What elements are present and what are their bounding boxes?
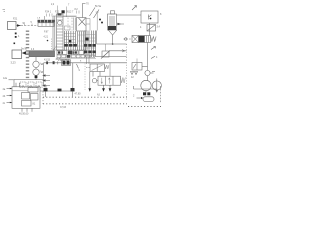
pilot node circle xyxy=(125,38,127,40)
wire funnel down xyxy=(112,35,114,44)
arrow label 2 xyxy=(137,97,143,99)
manifold bottom edge xyxy=(53,49,86,51)
wire motor box down xyxy=(149,23,151,36)
wire x43.5 down xyxy=(43,63,45,80)
wire cluster to funnel junction xyxy=(97,43,127,45)
enclosure stub left 12a xyxy=(9,79,15,81)
dashed vertical right xyxy=(160,86,162,103)
svg-text:A3: A3 xyxy=(97,94,101,97)
svg-text:9: 9 xyxy=(79,69,81,72)
junction dot on y44 xyxy=(112,43,114,45)
tick above band xyxy=(44,16,46,20)
tick mark xyxy=(14,43,16,45)
arrows into enclosure right c xyxy=(43,85,50,87)
node dot b xyxy=(101,22,103,24)
svg-text:43,53: 43,53 xyxy=(44,59,51,62)
svg-text:2: 2 xyxy=(133,95,135,98)
svg-text:F24 1: F24 1 xyxy=(45,11,52,14)
svg-text:70: 70 xyxy=(86,3,89,6)
wire G to main drop xyxy=(142,66,148,68)
valve block upper right with X xyxy=(77,18,87,32)
enclosure inner dashed cell 3 xyxy=(36,82,42,88)
small relief valve under box xyxy=(147,25,156,32)
manifold mid small box xyxy=(65,26,71,30)
manifold right verticals xyxy=(78,32,86,51)
ecu top stubs xyxy=(16,83,20,87)
load box B2 xyxy=(12,50,22,59)
pilot valve F1 body xyxy=(90,64,105,72)
wire y56 to right xyxy=(96,56,127,58)
arrows into enclosure right a xyxy=(43,75,50,77)
F1 pilot dashes xyxy=(86,67,90,69)
bus blob A2 xyxy=(44,88,48,91)
ecu left stub a xyxy=(7,88,13,90)
dotted stub vertical left xyxy=(42,92,44,105)
pilot dashes left of valve D xyxy=(124,38,133,40)
svg-text:7: 7 xyxy=(68,5,70,7)
svg-text:42: 42 xyxy=(131,76,134,79)
dotted bus line 2 xyxy=(43,103,127,105)
manifold band base line xyxy=(56,57,96,59)
svg-text:4c: 4c xyxy=(3,102,6,105)
manifold mid verticals xyxy=(64,31,75,50)
accumulator cylinder xyxy=(108,14,117,30)
svg-text:42,52: 42,52 xyxy=(56,59,62,61)
svg-text:40,50,60: 40,50,60 xyxy=(19,113,29,116)
motor circle P2 xyxy=(152,81,161,90)
cluster blob xyxy=(86,38,89,41)
wire gauge to pumps xyxy=(147,76,149,81)
dotted drop line x85 xyxy=(84,63,86,90)
svg-text:47,60: 47,60 xyxy=(75,93,82,96)
valve G top stub xyxy=(136,59,138,63)
gauge circle on column xyxy=(58,21,62,25)
svg-text:3,23: 3,23 xyxy=(11,61,17,65)
enclosure inner dashed cell 1 xyxy=(20,82,26,88)
directional valve D cell 3 xyxy=(145,36,151,43)
wire vertical top stub xyxy=(83,4,86,18)
spring right of valve D xyxy=(151,37,157,42)
F1 lower stubs xyxy=(93,72,100,77)
F2 top stub xyxy=(109,63,111,76)
ecu bottom stubs xyxy=(22,108,32,112)
svg-text:4: 4 xyxy=(156,56,158,59)
inline tick component b xyxy=(53,61,55,64)
wire y50 to right xyxy=(109,50,127,52)
inline tick component a xyxy=(46,61,48,64)
cluster dark row A xyxy=(84,44,87,47)
bus blob mid xyxy=(58,89,62,92)
svg-text:4 3: 4 3 xyxy=(31,49,35,51)
leader line 5b xyxy=(90,8,96,17)
check valve box E xyxy=(102,51,109,57)
br rounded tank xyxy=(143,97,154,102)
bottom port row 1 xyxy=(57,51,62,55)
svg-text:2,2: 2,2 xyxy=(51,4,55,6)
power unit enclosure top line xyxy=(14,80,44,87)
manifold right rungs xyxy=(78,35,86,46)
manifold upper-left inner verticals xyxy=(74,18,76,31)
cluster rungs xyxy=(85,35,96,56)
top stub ticks xyxy=(58,6,67,18)
tick bus to dotted xyxy=(46,91,73,97)
arrow mark near cylinder xyxy=(118,23,125,25)
ecu main box xyxy=(12,87,40,109)
ecu left stub c xyxy=(7,102,13,104)
svg-text:1.8: 1.8 xyxy=(37,18,41,20)
manifold mid rungs xyxy=(64,34,75,46)
arrow up-right label 9 xyxy=(132,6,137,11)
enclosure inner dashed cell 2 xyxy=(28,82,34,88)
svg-text:F.87: F.87 xyxy=(44,32,49,34)
junction blob below pumps xyxy=(35,76,38,79)
node dot a xyxy=(99,19,101,21)
cylinder inner lines xyxy=(110,16,114,28)
top row dark mark xyxy=(62,10,65,13)
leader dashes mid-left xyxy=(51,39,53,51)
wire cluster top stub xyxy=(96,12,99,31)
bus line y91 xyxy=(40,90,74,92)
F1 spring xyxy=(105,65,109,69)
label 9 with leader xyxy=(77,64,79,69)
ecu inner box 2 xyxy=(31,94,39,101)
ecu inner divider xyxy=(12,90,28,92)
node dot mid-left xyxy=(47,40,49,42)
main valve F2 body xyxy=(98,76,121,85)
inline tick c xyxy=(57,61,59,64)
wire cylinder top to valve xyxy=(63,16,77,18)
arrow from B1 xyxy=(17,25,22,27)
aux valve G right xyxy=(132,63,142,71)
leader line 5a xyxy=(94,10,100,19)
wire through pumps xyxy=(35,57,37,80)
leader diagonal xyxy=(53,46,57,51)
arrows into enclosure right b xyxy=(43,80,50,82)
svg-text:81: 81 xyxy=(33,103,36,106)
arrow on C1 xyxy=(40,63,43,65)
manifold cylinder column xyxy=(57,14,64,50)
wire corner from cluster top xyxy=(96,31,98,45)
P2 shaft arrow xyxy=(156,79,158,93)
svg-text:8: 8 xyxy=(80,61,82,63)
dashed signal wire to manifold xyxy=(21,25,38,27)
bottom port row 2 xyxy=(57,55,94,58)
svg-text:37,03: 37,03 xyxy=(60,106,67,109)
bus blob A5 xyxy=(71,88,75,91)
br cluster port squares xyxy=(143,92,146,95)
wire cylinder top to motor box xyxy=(117,14,142,16)
svg-text:8: 8 xyxy=(160,13,162,16)
motor box inner mark xyxy=(149,15,152,20)
arrow on C2 xyxy=(40,71,43,73)
node dots left xyxy=(15,33,17,35)
svg-text:0512 7: 0512 7 xyxy=(66,11,74,14)
pump circle C2 xyxy=(33,69,39,75)
svg-text:9b: 9b xyxy=(23,23,26,25)
drop to check valve xyxy=(105,44,107,51)
wire valve D down xyxy=(147,43,149,71)
ecu left stub b xyxy=(7,95,13,97)
svg-text:3,4: 3,4 xyxy=(157,26,161,29)
pump circles mid-left C1 xyxy=(33,61,39,67)
ecu inner box 1 xyxy=(22,93,30,100)
manifold mid upper dashes xyxy=(68,18,72,31)
svg-text:4,21: 4,21 xyxy=(44,37,49,39)
wire B2 to hatch bar xyxy=(26,52,30,54)
corner mark top-left xyxy=(3,10,6,12)
dotted bus line 1 xyxy=(43,96,127,98)
motor box M xyxy=(141,11,158,23)
svg-text:1: 1 xyxy=(18,34,20,38)
directional valve D cell 2 dark xyxy=(139,36,145,43)
pump base line xyxy=(134,86,158,89)
ecu top inner box xyxy=(28,88,38,93)
cluster verticals center-right xyxy=(85,31,96,58)
connector dark band xyxy=(38,20,41,23)
cluster to valve F1 stubs xyxy=(87,57,90,64)
svg-text:5b 5a: 5b 5a xyxy=(95,5,102,8)
svg-text:4b: 4b xyxy=(3,95,6,98)
G drain triangles xyxy=(131,72,138,75)
dark port row xyxy=(65,44,68,47)
dashed ladder signal column xyxy=(26,31,29,79)
svg-text:12a: 12a xyxy=(3,77,8,80)
hatched piston bar xyxy=(29,51,55,57)
funnel below cylinder xyxy=(108,30,117,35)
check valve arrow xyxy=(101,51,110,59)
cylinder dark base xyxy=(108,26,116,30)
open arrow on line y50.8 xyxy=(122,50,125,52)
directional valve D cell 1 xyxy=(132,36,139,43)
manifold top edge xyxy=(53,15,77,17)
svg-text:4: 4 xyxy=(140,26,142,29)
svg-text:A4: A4 xyxy=(113,94,117,97)
inline component double box xyxy=(62,60,71,66)
arrow label 7 xyxy=(151,47,156,50)
cluster dark row B xyxy=(84,51,87,54)
wire x73 down xyxy=(72,63,74,91)
pump circle P1 xyxy=(141,80,151,90)
F2 stubs down with arrows xyxy=(104,85,111,91)
connector light row xyxy=(38,23,54,27)
row1 gap dots xyxy=(62,52,63,54)
tick label lower xyxy=(151,56,155,58)
x-valve right stubs xyxy=(86,19,90,31)
F2 pilot gauge circle xyxy=(92,79,96,83)
cylinder cap xyxy=(111,11,115,14)
ecu inner box 3 xyxy=(22,101,32,107)
F1 stub arrow down xyxy=(88,88,91,92)
P1 drop xyxy=(145,91,147,96)
F2 spring W xyxy=(121,78,126,84)
tick row right xyxy=(77,11,80,14)
svg-text:F21: F21 xyxy=(13,18,18,21)
tick row under text xyxy=(47,14,53,17)
cylinder dark cap xyxy=(58,13,62,15)
arrowhead into B2 xyxy=(22,51,26,54)
F1 arrow xyxy=(92,65,103,71)
dotted pilot line vertical right xyxy=(126,44,128,100)
junction blob xyxy=(69,40,71,42)
svg-text:4a: 4a xyxy=(3,88,6,91)
manifold left wall xyxy=(53,16,55,50)
tick right of gauge xyxy=(152,71,155,73)
cylinder rungs xyxy=(57,17,64,47)
main line y62 xyxy=(44,62,127,64)
F2 arrows inside xyxy=(101,78,110,84)
dotted line bottom right xyxy=(128,106,161,108)
controller box B1 xyxy=(8,22,17,30)
gauge circle on drop xyxy=(145,70,150,75)
